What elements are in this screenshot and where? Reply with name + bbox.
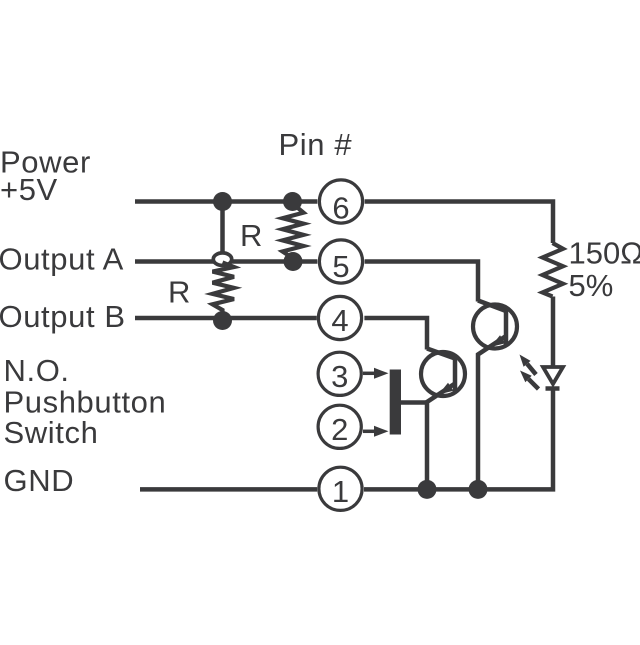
pushbutton bar bbox=[390, 370, 401, 435]
transistor Q1 bbox=[421, 349, 465, 490]
svg-text:Output B: Output B bbox=[0, 299, 126, 334]
pin 5 bbox=[319, 240, 362, 284]
junction dot at Q2 emitter / GND bbox=[469, 480, 488, 499]
wire pin5 to Q2 collector bend bbox=[365, 262, 478, 302]
pin 3 arrow bbox=[363, 368, 389, 379]
svg-text:2: 2 bbox=[331, 412, 348, 447]
wire GND left segment bbox=[140, 487, 317, 492]
wire hop (crossover) on Output A bbox=[213, 253, 231, 266]
pin 2 arrow bbox=[363, 426, 389, 437]
pin 1 bbox=[319, 467, 362, 510]
wire pin4 to Q1 collector bend bbox=[364, 318, 427, 350]
junction dot at R lower / Output B bbox=[213, 311, 232, 330]
resistor 150ohm zigzag bbox=[543, 243, 564, 297]
wire pin6 to top-right corner bbox=[365, 202, 553, 244]
transistor Q2 bbox=[473, 301, 517, 490]
pin 6 bbox=[319, 180, 362, 226]
svg-text:R: R bbox=[168, 275, 190, 310]
wire pushbutton common to Q1 emitter bbox=[401, 400, 428, 405]
wire 150ohm to LED bbox=[551, 297, 556, 368]
LED light arrow upper bbox=[520, 355, 537, 375]
svg-text:150Ω: 150Ω bbox=[569, 236, 640, 271]
svg-text:6: 6 bbox=[332, 191, 349, 226]
resistor R (upper) zigzag bbox=[283, 204, 304, 262]
wire Output A left segment bbox=[135, 259, 214, 264]
wire Output B bbox=[135, 316, 317, 321]
junction dot at +5V / R upper bbox=[283, 192, 302, 211]
junction dot at R upper / pin5 line bbox=[284, 252, 303, 271]
pin 2 bbox=[318, 405, 361, 448]
svg-text:GND: GND bbox=[4, 463, 75, 498]
svg-text:5: 5 bbox=[332, 249, 349, 284]
wire +5V rail bbox=[135, 199, 317, 204]
svg-text:Output A: Output A bbox=[0, 242, 124, 277]
wire Output A right segment bbox=[232, 259, 318, 264]
svg-text:R: R bbox=[240, 218, 262, 253]
svg-text:+5V: +5V bbox=[0, 172, 58, 207]
junction dot at +5V / R lower bbox=[213, 192, 232, 211]
junction dot at Q1 emitter / GND bbox=[418, 480, 437, 499]
wire LED to GND corner bbox=[364, 389, 553, 490]
resistor R (lower) zigzag bbox=[213, 263, 235, 321]
svg-text:1: 1 bbox=[332, 474, 349, 509]
svg-text:4: 4 bbox=[331, 303, 348, 338]
svg-text:Pin #: Pin # bbox=[279, 127, 353, 162]
svg-text:Switch: Switch bbox=[4, 415, 99, 450]
wire from +5V junction down to resistor R (lower) bbox=[220, 202, 225, 254]
svg-text:3: 3 bbox=[331, 359, 348, 394]
LED light arrow lower bbox=[520, 371, 539, 390]
pin 3 bbox=[318, 352, 361, 395]
LED D1 bbox=[543, 367, 563, 389]
svg-text:N.O.: N.O. bbox=[4, 353, 70, 388]
pin 4 bbox=[318, 296, 361, 339]
svg-text:5%: 5% bbox=[569, 268, 614, 303]
